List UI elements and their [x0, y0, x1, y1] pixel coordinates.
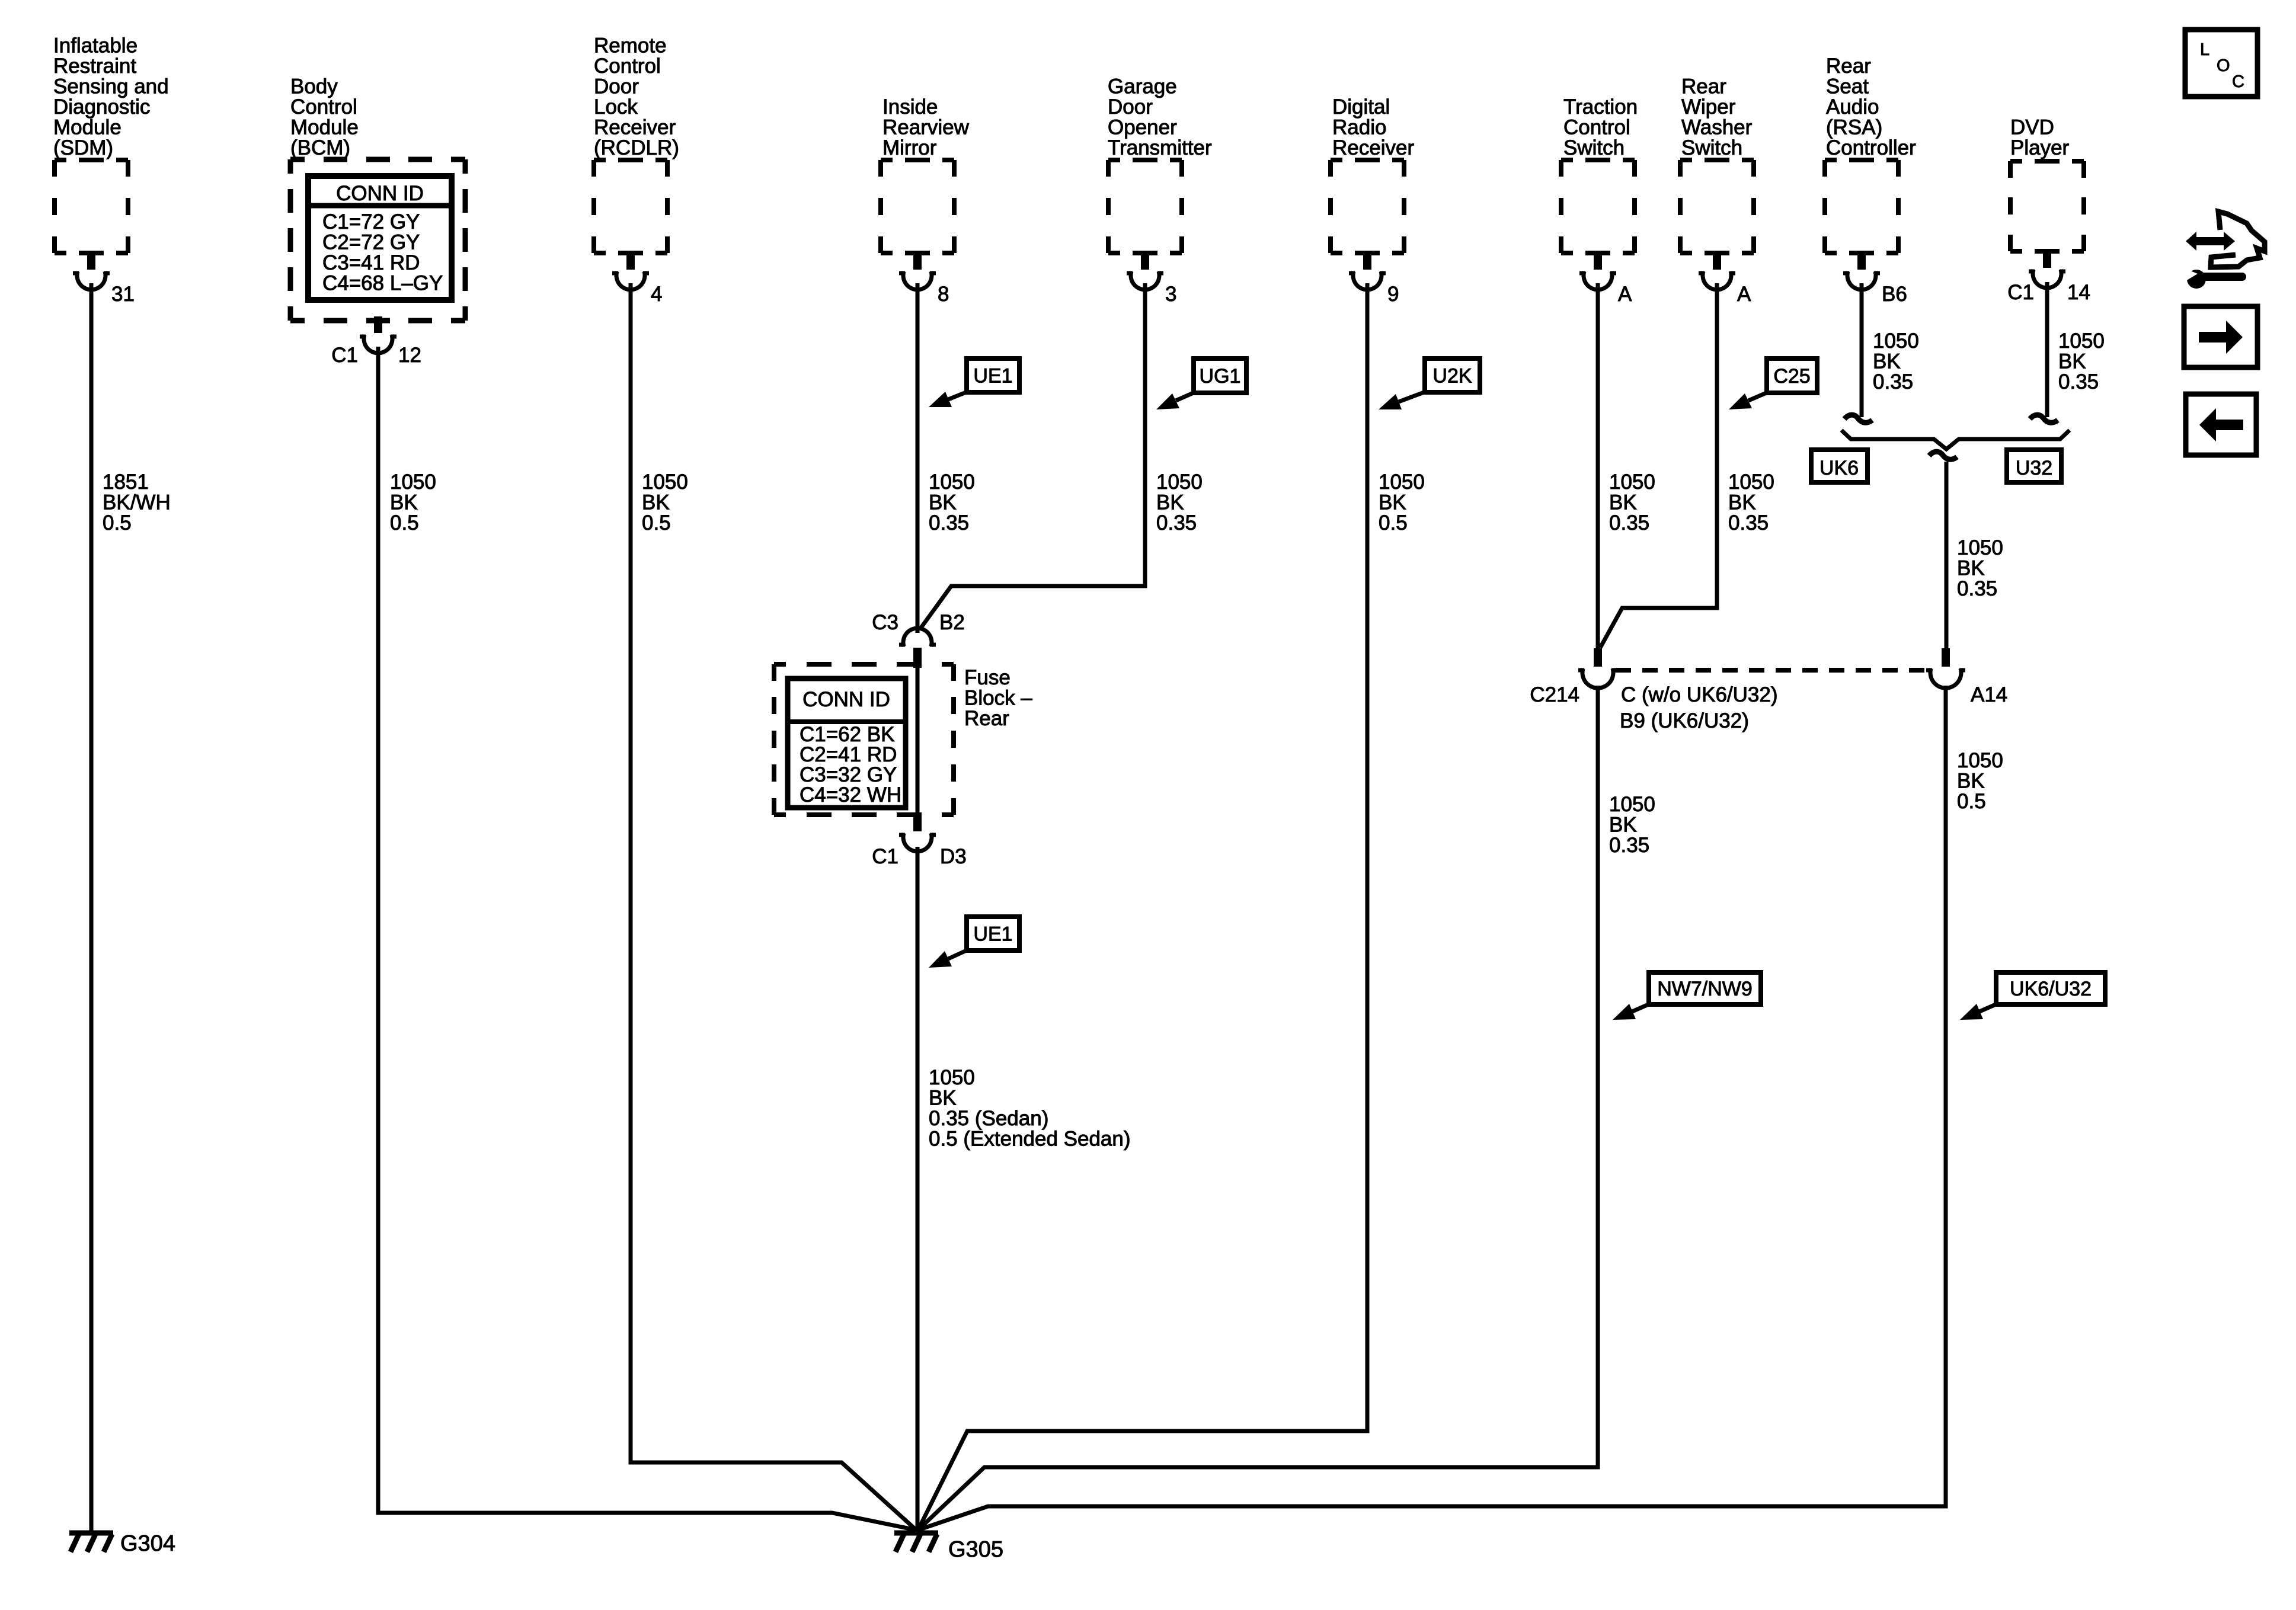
svg-text:A: A — [1618, 283, 1632, 306]
connector DVD Player C1 pin 14 — [2029, 251, 2065, 288]
svg-text:A14: A14 — [1971, 683, 2007, 706]
wire Traction Control 1050 BK — [1596, 283, 1600, 649]
svg-text:C1: C1 — [331, 344, 358, 367]
splice hook RSA wire end — [1844, 415, 1872, 422]
legend LOC box — [2185, 30, 2257, 97]
harness label NW7/NW9 — [1613, 972, 1761, 1020]
component Garage Door Opener Transmitter dashed box — [1108, 160, 1182, 253]
component Fuse Block - Rear dashed box — [774, 664, 954, 815]
in-line connector C214 (traction/wiper) — [1578, 648, 1617, 688]
component Digital Radio Receiver dashed box — [1331, 160, 1404, 253]
wire A14 1050 BK to G305 — [920, 686, 1946, 1529]
component Inside Rearview Mirror dashed box — [881, 160, 954, 253]
svg-text:CONN ID: CONN ID — [336, 182, 424, 205]
wire fuse block internal — [916, 650, 920, 816]
wire SDM 1851 BK/WH to G304 — [89, 283, 94, 1531]
harness label UE1 (upper) — [929, 359, 1019, 407]
brace UK6/U32 harness join — [1841, 430, 2070, 449]
svg-text:C1: C1 — [872, 845, 898, 868]
svg-text:C1: C1 — [2007, 281, 2034, 304]
component Rear Wiper Washer Switch dashed box — [1680, 160, 1754, 253]
svg-text:4: 4 — [651, 283, 662, 306]
wire Rear Wiper Washer 1050 BK — [1600, 283, 1717, 648]
svg-text:C1=62 BKC2=41 RDC3=32 GYC4=32: C1=62 BKC2=41 RDC3=32 GYC4=32 WH — [800, 723, 901, 806]
harness label UG1 — [1156, 359, 1246, 409]
harness label U2K — [1379, 359, 1480, 409]
connector Rear Wiper Washer pin A — [1699, 253, 1735, 290]
svg-text:UE1: UE1 — [973, 923, 1012, 946]
wire RSA 1050 BK — [1860, 283, 1864, 417]
Fuse Block CONN ID table — [788, 678, 906, 808]
svg-text:C3: C3 — [872, 611, 898, 634]
dashed link C214 to A14 — [1616, 668, 1927, 673]
wire UK6/U32 1050 BK from brace — [1945, 462, 1949, 649]
harness label UE1 (below fuse block) — [929, 917, 1019, 968]
svg-text:9: 9 — [1387, 283, 1399, 306]
ground G304 — [69, 1531, 175, 1556]
connector Inside Rearview Mirror pin 8 — [899, 253, 936, 290]
component Traction Control Switch dashed box — [1561, 160, 1635, 253]
wire Digital Radio 1050 BK to G305 — [919, 283, 1367, 1529]
svg-text:CONN ID: CONN ID — [802, 688, 890, 711]
connector SDM pin 31 — [73, 253, 110, 290]
option box UK6 — [1811, 450, 1868, 482]
svg-text:O: O — [2217, 56, 2230, 75]
svg-text:UE1: UE1 — [973, 365, 1012, 388]
svg-text:L: L — [2200, 40, 2209, 59]
connector Garage Door Opener pin 3 — [1127, 253, 1163, 290]
component DVD Player dashed box — [2010, 161, 2084, 251]
svg-text:G305: G305 — [948, 1537, 1003, 1562]
fuse block connector C3 pin B2 — [899, 628, 936, 668]
connector Digital Radio pin 9 — [1349, 253, 1386, 290]
svg-text:B6: B6 — [1882, 283, 1907, 306]
svg-text:U32: U32 — [2016, 457, 2052, 479]
connector RSA pin B6 — [1843, 253, 1880, 290]
connector RCDLR pin 4 — [612, 253, 649, 290]
component SDM dashed box — [55, 160, 128, 253]
wire DVD 1050 BK — [2045, 282, 2049, 417]
harness label UK6/U32 — [1960, 972, 2105, 1020]
BCM CONN ID table — [308, 176, 452, 300]
svg-text:C (w/o UK6/U32): C (w/o UK6/U32) — [1621, 683, 1778, 706]
svg-text:3: 3 — [1165, 283, 1176, 306]
svg-text:31: 31 — [111, 283, 135, 306]
svg-text:12: 12 — [398, 344, 421, 367]
svg-text:14: 14 — [2067, 281, 2090, 304]
svg-text:G304: G304 — [120, 1531, 175, 1556]
component RCDLR dashed box — [594, 160, 667, 253]
svg-text:UK6/U32: UK6/U32 — [2010, 978, 2092, 1000]
svg-text:C: C — [2232, 72, 2244, 91]
svg-text:U2K: U2K — [1432, 365, 1472, 388]
harness label C25 — [1729, 359, 1817, 409]
legend vehicle harness icon — [2185, 212, 2265, 289]
in-line connector A14 (UK6/U32) — [1926, 648, 1965, 688]
svg-text:NW7/NW9: NW7/NW9 — [1657, 978, 1753, 1000]
wire Inside Rearview Mirror 1050 BK — [916, 283, 920, 633]
svg-text:A: A — [1737, 283, 1751, 306]
component BCM dashed box — [290, 159, 465, 321]
connector BCM C1 pin 12 — [360, 316, 396, 353]
wire 1050 BK fuse block to G305 — [916, 847, 920, 1531]
svg-text:C214: C214 — [1530, 683, 1579, 706]
wire C214 1050 BK to G305 — [919, 686, 1598, 1529]
svg-text:8: 8 — [938, 283, 949, 306]
splice hook below brace — [1929, 452, 1957, 459]
connector Traction Control pin A — [1579, 253, 1616, 290]
wire RCDLR 1050 BK to G305 — [631, 283, 916, 1530]
component RSA Controller dashed box — [1825, 160, 1898, 253]
option box U32 — [2007, 450, 2061, 482]
svg-text:B2: B2 — [939, 611, 965, 634]
wire Garage Door Opener 1050 BK — [920, 283, 1145, 629]
svg-text:C25: C25 — [1773, 365, 1810, 388]
ground G305 — [894, 1533, 1003, 1562]
svg-text:UG1: UG1 — [1200, 365, 1241, 388]
svg-text:UK6: UK6 — [1819, 457, 1859, 479]
splice hook DVD wire end — [2030, 415, 2058, 422]
fuse block connector C1 pin D3 — [899, 815, 936, 852]
legend forward arrow box — [2184, 306, 2257, 367]
legend backward arrow box — [2186, 394, 2256, 455]
wire BCM 1050 BK to G305 — [378, 347, 916, 1530]
svg-text:B9 (UK6/U32): B9 (UK6/U32) — [1620, 709, 1749, 732]
svg-text:D3: D3 — [940, 845, 967, 868]
